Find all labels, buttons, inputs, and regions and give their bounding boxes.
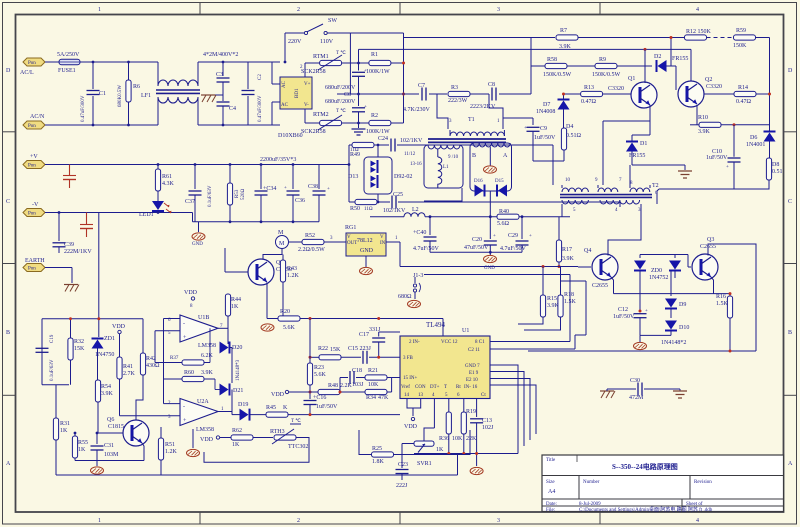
svg-text:10K: 10K [452,436,463,442]
svg-text:15 IN+: 15 IN+ [403,376,418,381]
svg-text:222J: 222J [396,483,408,489]
capacitor C9 [524,118,556,161]
svg-text:Sheet of: Sheet of [686,502,703,507]
svg-text:Q4: Q4 [584,248,591,254]
wire E1 pin9 [490,372,524,447]
svg-text:RTM1: RTM1 [313,54,329,60]
wire base Q4 [556,266,578,268]
svg-text:R18: R18 [564,292,574,298]
wire long bottom rail [56,474,458,476]
svg-text:2 IN-: 2 IN- [409,340,420,345]
capacitor C39 [53,213,93,256]
svg-text:Q2: Q2 [705,77,712,83]
diode pair D13 bottom [371,175,378,188]
svg-text:103M: 103M [104,452,119,458]
svg-text:Title: Title [546,458,556,463]
transistor Q5 [248,259,292,285]
diode D9 [665,271,686,309]
svg-text:T: T [444,385,447,390]
svg-text:11Ω: 11Ω [350,148,359,153]
wire U1B pin6 feedback [164,318,181,320]
svg-text:100K/1W: 100K/1W [366,69,390,75]
wire DT pin4 to SVR1 [424,428,434,441]
svg-text:0.47Ω: 0.47Ω [736,99,752,105]
wire Q6 emitter [142,443,144,461]
svg-text:A: A [503,153,508,159]
svg-text:R52: R52 [305,233,315,239]
wire Q2 collector [690,49,692,81]
capacitor C3 [216,62,230,101]
svg-text:R43: R43 [287,266,297,272]
svg-text:R16: R16 [716,294,726,300]
svg-text:2: 2 [297,7,300,13]
wire Q4 collector [608,207,641,256]
svg-text:V: V [380,235,384,240]
wire C2 pin11 [490,348,575,350]
svg-text:R51: R51 [165,442,175,448]
svg-text:C38: C38 [308,184,318,190]
svg-text:BD1: BD1 [295,88,300,98]
svg-text:331J: 331J [369,327,381,333]
wire Q3 emitter [711,277,714,294]
port -V [23,202,45,217]
resistor R19 [461,409,476,454]
svg-text:C2655: C2655 [592,283,608,289]
op-amp U2A [168,399,224,434]
earth hatch left [600,389,615,398]
resistor R9 [592,57,621,78]
svg-text:1uF/50V: 1uF/50V [316,404,338,410]
svg-text:Size: Size [546,480,555,485]
svg-text:100K/1W: 100K/1W [366,129,390,135]
wire sense bottom [42,384,69,386]
svg-text:4.7uF/50V: 4.7uF/50V [413,246,440,252]
svg-text:R31: R31 [60,421,70,427]
capacitor C4 [217,102,237,125]
svg-text:C8: C8 [488,82,495,88]
svg-text:LM358: LM358 [196,427,214,433]
svg-text:T1: T1 [468,117,475,123]
svg-text:1K: 1K [232,442,240,448]
wire after LF1 top [198,61,280,63]
wire Q4 emitter [611,277,614,294]
red capacitor mark 1 [63,165,76,189]
wire left box bottom [424,188,462,201]
capacitor C17 [359,327,400,357]
wire +V rail [45,164,349,166]
wire FB row [310,356,320,358]
svg-text:V: V [347,235,351,240]
inductor L2 [404,213,425,217]
svg-text:+: + [284,186,287,191]
svg-text:R62: R62 [232,428,242,434]
resistor R12 [685,29,712,40]
svg-text:Revision: Revision [694,480,712,485]
svg-text:+C16: +C16 [313,395,326,401]
earth symbol at C3/C4 junction [201,95,223,102]
svg-text:1: 1 [98,7,101,13]
transistor Q2 [678,77,722,107]
svg-text:U1B: U1B [198,315,209,321]
svg-text:3.9K: 3.9K [101,391,114,397]
svg-text:Vref: Vref [401,385,410,390]
resistor R45 [266,405,288,417]
svg-text:4: 4 [696,7,699,13]
svg-text:C23: C23 [398,462,408,468]
capacitor C40 [413,217,440,253]
svg-text:1N4148*2: 1N4148*2 [661,340,686,346]
diode D1 [626,135,647,165]
capacitor C6 (two 680uF) [325,49,367,135]
resistor D8 0.51 [766,142,782,190]
svg-text:V+: V+ [304,82,311,87]
resistor R58 [531,57,572,78]
svg-text:M: M [278,230,284,236]
svg-text:C13: C13 [482,418,492,424]
svg-text:M: M [279,241,285,247]
connector J1 [398,273,570,308]
svg-text:1K: 1K [60,428,68,434]
switch SW [285,18,404,94]
wire U1B out [218,327,228,329]
svg-text:2.7K: 2.7K [123,371,136,377]
svg-text:1uF/50V: 1uF/50V [534,135,556,141]
svg-text:R61: R61 [162,174,172,180]
IC U1 TL494 [400,321,490,399]
resistor D4 0.51 [561,124,581,161]
svg-text:R41: R41 [123,364,133,370]
svg-text:+V: +V [30,154,38,160]
svg-text:Number: Number [583,480,600,485]
svg-text:C6: C6 [344,92,351,98]
svg-text:R1: R1 [371,52,378,58]
wire emitters rail [614,293,731,295]
svg-text:R13: R13 [584,85,594,91]
aux rectifier box nodes B A [470,143,512,191]
svg-text:3.9K: 3.9K [562,256,575,262]
potentiometer SVR1 [404,441,444,467]
zener ZD1 [92,213,116,381]
svg-text:VCC 12: VCC 12 [441,340,458,345]
port AC/L [20,58,45,76]
svg-text:3.9K: 3.9K [201,370,214,376]
svg-text:SCK2R58: SCK2R58 [301,69,326,75]
node VDD left [112,324,126,334]
thermistor RTM2 [301,108,346,135]
svg-text:R12 150K: R12 150K [686,29,712,35]
svg-text:+: + [364,105,367,110]
wire mid to C7 [404,93,420,95]
svg-text:8 C1: 8 C1 [475,340,485,345]
resistor R1 [366,52,391,75]
svg-text:150K: 150K [733,43,747,49]
BD1 V- stub [305,109,321,123]
svg-text:1: 1 [98,518,101,524]
wire Q5 collector to M [263,249,282,260]
junction dots bridge [92,61,360,127]
svg-text:3: 3 [497,7,500,13]
svg-text:FR155: FR155 [629,153,645,159]
svg-text:C19: C19 [50,334,55,343]
svg-text:C30: C30 [630,378,640,384]
port AC/N [23,114,45,129]
resistor R20 [278,309,300,331]
red GND label [484,252,497,271]
svg-text:78L12: 78L12 [357,238,373,244]
resistor R44 [225,290,241,344]
wire Q2 base from D2 [671,65,676,67]
thermistor RTH3 [270,418,308,450]
svg-text:T ℃: T ℃ [336,108,346,114]
svg-text:D16: D16 [474,179,483,184]
svg-text:A4: A4 [548,489,555,495]
resistor R59 [733,28,756,49]
svg-text:U1: U1 [462,328,469,334]
LED LED1 [139,201,172,218]
node VDD under TL494 [404,417,418,430]
resistor R51 [158,427,177,475]
wire VDD to R48 [289,391,318,393]
svg-text:+C34: +C34 [263,186,276,192]
svg-text:D8: D8 [772,162,779,168]
svg-text:VDD: VDD [404,424,418,430]
resistor R34 [340,389,389,401]
wire filter bottom rail [430,251,522,253]
svg-text:DT+: DT+ [430,385,440,390]
svg-text:-: - [183,404,185,410]
svg-text:ZD0: ZD0 [651,268,662,274]
svg-text:0.1uF/63V: 0.1uF/63V [208,185,213,207]
svg-text:0.1uF/63V: 0.1uF/63V [50,359,55,381]
resistor R16 [716,290,733,351]
capacitor C38 [308,165,330,222]
wire C1 pin8 [490,341,570,343]
svg-text:C1815: C1815 [108,424,124,430]
svg-text:102J: 102J [482,425,494,431]
resistor R52 [298,233,325,253]
wire E2 pin10 [490,379,530,441]
svg-text:+: + [524,126,527,131]
capacitor C20 [464,217,497,253]
svg-text:1uF/50V: 1uF/50V [613,314,635,320]
zener ZD0 b [649,255,681,282]
svg-text:AC: AC [282,80,287,88]
svg-text:6.2K: 6.2K [201,353,214,359]
svg-text:ZD1: ZD1 [104,336,115,342]
svg-text:C39: C39 [64,242,74,248]
resistor R42 [140,319,160,375]
wire RG1 in [386,241,400,243]
resistor R53 [227,165,246,222]
op-amp U1B [168,315,223,349]
svg-text:R7: R7 [560,28,567,34]
capacitor C29 [500,217,532,253]
resistor R54 [95,380,113,433]
capacitor C10 [706,125,741,189]
svg-text:R55: R55 [78,440,88,446]
svg-text:0.47uF/300V: 0.47uF/300V [81,95,86,122]
capacitor C37 [185,165,213,222]
bus x531 [530,37,532,94]
resistor R60 [164,370,216,382]
svg-text:4.3K: 4.3K [162,181,175,187]
wire C30 row [607,388,636,390]
resistor R36 [446,412,451,454]
svg-text:680uF/200V: 680uF/200V [325,85,356,91]
svg-text:1N4008: 1N4008 [536,109,555,115]
wire bottom long rail [528,350,756,352]
gnd ellipse under Q5 emitter [261,324,274,331]
svg-text:C:\Documents and Settings\Admi: C:\Documents and Settings\Admin桌面\阿苏电 路图… [579,506,713,513]
svg-text:1K: 1K [78,447,86,453]
diode D2 [654,54,688,72]
svg-text:102/1KV: 102/1KV [400,138,423,144]
svg-text:4.7K/230V: 4.7K/230V [403,107,431,113]
svg-text:E1 9: E1 9 [469,371,479,376]
svg-text:222M/1KV: 222M/1KV [64,249,92,255]
wire bottom rail TL494 [414,453,518,455]
svg-text:Date:: Date: [546,502,557,507]
svg-text:S--350--24电路原理图: S--350--24电路原理图 [612,462,678,471]
svg-text:1N4750: 1N4750 [95,352,114,358]
svg-text:14: 14 [404,393,410,398]
svg-text:R54: R54 [101,384,111,390]
wire sense left [41,319,43,385]
svg-text:VDD: VDD [271,392,285,398]
wire aux output center [489,191,491,217]
diode D21 [220,384,244,396]
svg-text:5.6K: 5.6K [314,372,327,378]
svg-text:B: B [472,153,476,159]
wire doubler mid [337,93,404,95]
wire D1 to ground ladder [632,164,685,166]
wire sense top [42,318,143,320]
svg-text:RG1: RG1 [345,225,356,231]
svg-text:D2: D2 [654,54,661,60]
fuse FUSE1 [57,52,80,74]
svg-text:T ℃: T ℃ [336,50,346,56]
resistor R41 [117,334,136,416]
svg-text:SVR1: SVR1 [417,461,432,467]
svg-text:V-: V- [304,103,309,108]
resistor R50 [349,199,377,212]
svg-text:GND: GND [192,242,203,247]
svg-text:A: A [788,461,793,467]
ground at T2 center [678,165,692,178]
svg-text:R2: R2 [371,113,378,119]
svg-text:U2A: U2A [197,399,209,405]
svg-text:D4: D4 [566,124,573,130]
svg-text:15K: 15K [74,346,85,352]
wire output rail [370,216,404,218]
svg-text:R59: R59 [736,28,746,34]
svg-text:C3320: C3320 [706,84,722,90]
resistor R14 [734,85,756,105]
diode D6 [746,125,776,148]
svg-text:R6: R6 [133,84,140,90]
svg-text:-V: -V [32,202,39,208]
svg-text:R15: R15 [547,296,557,302]
earth symbol [64,285,79,292]
svg-text:1N4001: 1N4001 [746,142,765,148]
svg-text:1uF/50V: 1uF/50V [706,155,728,161]
svg-text:B: B [6,330,10,336]
right bus down [769,38,771,131]
svg-text:K: K [283,405,288,411]
wire top rail y37 [404,37,556,39]
capacitor C36 [284,165,305,222]
wire Q3 collector [708,244,756,351]
resistor R6 [118,62,140,125]
svg-text:5.6Ω: 5.6Ω [497,221,510,227]
resistor R37 [164,328,214,365]
svg-text:15K: 15K [330,347,341,353]
diode D16 [474,179,485,197]
capacitor C1 [81,62,106,125]
svg-text:LED1: LED1 [139,212,154,218]
svg-text:D10: D10 [679,325,689,331]
svg-text:10: 10 [565,178,571,183]
wire U2A pin3 [120,415,181,417]
wire zener bottom rail [640,334,671,336]
svg-text:R22: R22 [318,346,328,352]
svg-text:RTH3: RTH3 [270,429,285,435]
svg-text:C17: C17 [359,332,369,338]
svg-text:3.9K: 3.9K [698,129,711,135]
resistor R48 [318,383,353,395]
svg-text:222/3W: 222/3W [448,98,468,104]
svg-text:R37: R37 [170,356,179,361]
resistor R55 [72,433,88,461]
resistor R18 [524,267,577,331]
svg-text:13: 13 [418,393,424,398]
svg-text:Q3: Q3 [707,237,714,243]
resistor R49 [350,142,374,158]
svg-text:D1: D1 [640,141,647,147]
capacitor C7 [403,83,431,113]
resistor R15 [518,267,560,325]
svg-text:D: D [788,68,793,74]
choke LF1 [156,62,200,125]
wire R55/C31 bottom [75,460,144,462]
transistor Q1 [608,76,657,108]
transistor Q6 [107,417,149,446]
svg-text:R21: R21 [368,368,378,374]
port +V [23,154,45,169]
capacitor C12 [613,307,648,335]
svg-text:472M: 472M [629,395,644,401]
node VDD mid [271,390,289,398]
svg-text:1.8K: 1.8K [372,459,385,465]
svg-text:+: + [645,309,648,314]
resistor R25 [372,446,394,465]
svg-text:11Ω: 11Ω [364,207,373,212]
transistor Q4 [584,248,618,289]
svg-text:0.51: 0.51 [772,169,783,175]
svg-text:C31: C31 [104,443,114,449]
capacitor C25 [377,192,406,214]
svg-text:+: + [529,234,532,239]
node VDD op-amp [184,290,198,309]
svg-text:150K/0.5W: 150K/0.5W [543,72,572,78]
svg-text:680K0.5W: 680K0.5W [118,85,123,107]
svg-text:Q6: Q6 [107,417,114,423]
wire VCC top [442,319,444,337]
svg-text:8-Jul-2009: 8-Jul-2009 [579,502,601,507]
wire IN-16 [490,385,536,434]
svg-text:D19: D19 [238,402,248,408]
svg-text:1.2K: 1.2K [287,273,300,279]
